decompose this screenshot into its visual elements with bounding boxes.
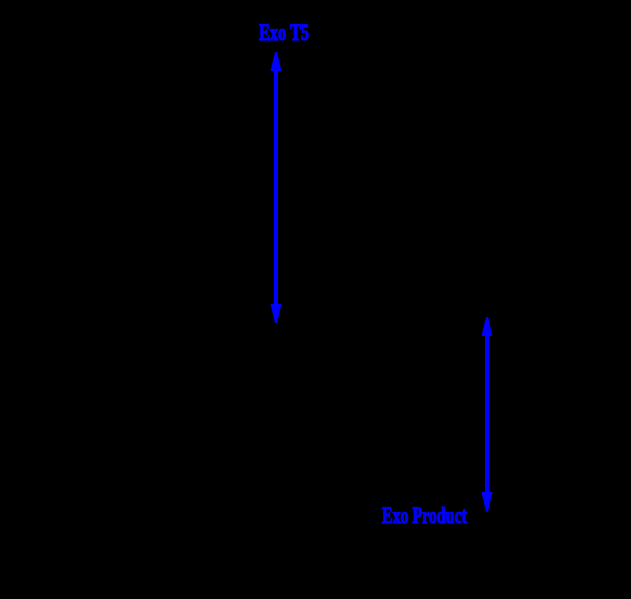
label Exo Product: [382, 503, 467, 529]
arrow2 head bottom: [482, 492, 493, 512]
label Exo T5: [259, 20, 309, 46]
wire arrow1 shaft: [274, 66, 278, 309]
arrow1 head bottom: [271, 304, 282, 323]
wire arrow2 shaft: [485, 331, 489, 497]
arrow2 head top: [482, 317, 493, 336]
arrow1 head top: [271, 52, 282, 71]
